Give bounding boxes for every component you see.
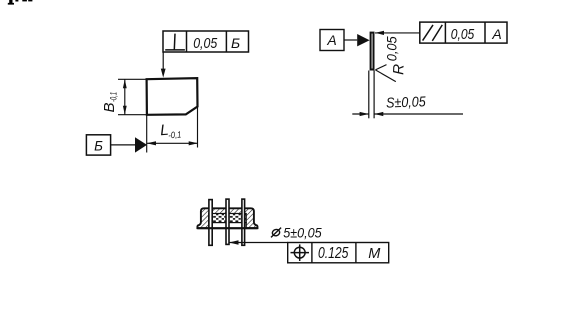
svg-text:B: B (101, 102, 118, 112)
svg-text:5±0,05: 5±0,05 (283, 225, 322, 240)
svg-text:-0,1: -0,1 (168, 129, 182, 140)
svg-text:R: R (390, 64, 407, 76)
svg-text:A: A (491, 26, 501, 42)
svg-text:M: M (368, 246, 381, 262)
svg-text:0,05: 0,05 (193, 36, 218, 52)
svg-text:0,05: 0,05 (451, 27, 475, 43)
svg-text:A: A (326, 32, 336, 48)
svg-text:Б: Б (94, 138, 103, 153)
svg-text:0,05: 0,05 (383, 36, 399, 61)
svg-text:-0,1: -0,1 (109, 92, 119, 102)
svg-text:Б: Б (231, 35, 240, 51)
svg-text:S±0,05: S±0,05 (386, 94, 426, 111)
svg-text:0.125: 0.125 (318, 245, 349, 262)
